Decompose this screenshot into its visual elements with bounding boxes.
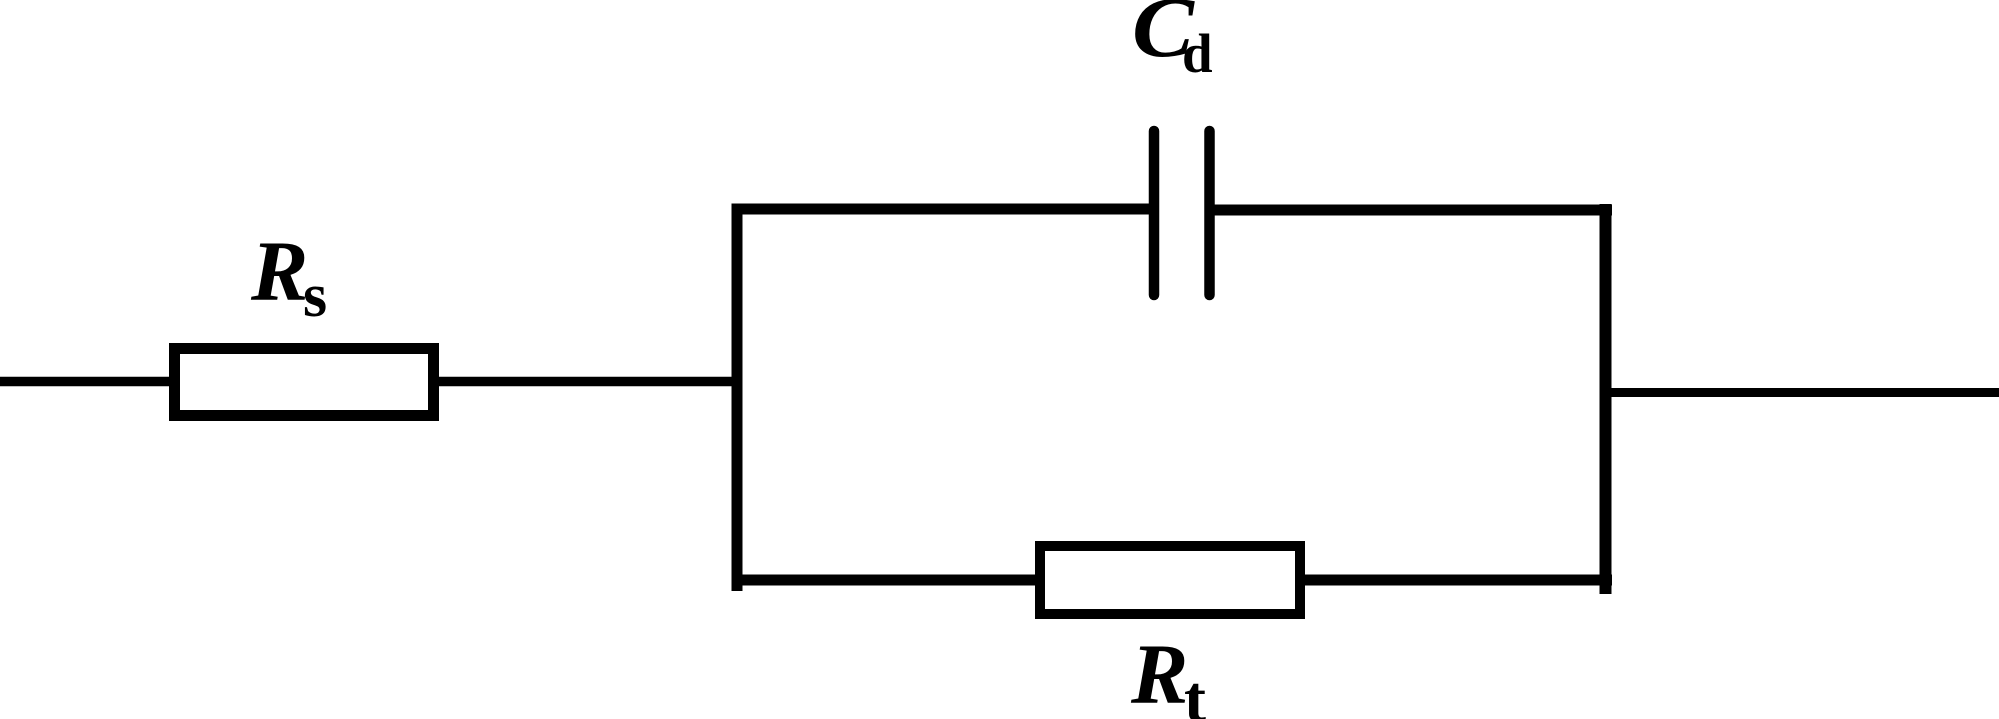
svg-text:s: s bbox=[303, 262, 327, 330]
resistor R_t bbox=[1040, 546, 1300, 614]
wire top branch right segment bbox=[1209, 205, 1612, 216]
svg-text:R: R bbox=[1130, 626, 1188, 719]
svg-text:t: t bbox=[1184, 663, 1206, 719]
resistor Rs bbox=[175, 349, 434, 416]
wire left vertical of parallel loop bbox=[732, 204, 743, 591]
wire input left bbox=[0, 377, 742, 387]
svg-text:d: d bbox=[1182, 23, 1213, 84]
capacitor C_d right plate bbox=[1204, 131, 1215, 295]
wire right vertical of parallel loop bbox=[1600, 204, 1612, 594]
capacitor C_d left plate bbox=[1149, 131, 1160, 295]
wire top branch left segment bbox=[732, 204, 1155, 215]
svg-text:R: R bbox=[250, 223, 308, 319]
wire bottom branch right segment bbox=[1300, 575, 1612, 586]
wire bottom branch left segment bbox=[732, 575, 1101, 586]
wire output right bbox=[1600, 388, 1999, 397]
